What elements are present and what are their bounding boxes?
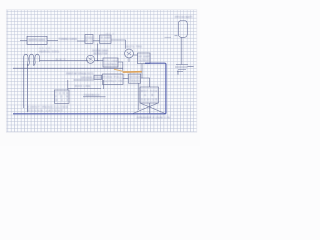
box G2 (103, 74, 124, 84)
tune box (55, 90, 70, 103)
wire B to C (93, 40, 100, 42)
svg-text:MIX: MIX (86, 40, 94, 43)
transistor T2 circle (125, 49, 134, 58)
svg-text:OUTPUT: OUTPUT (138, 58, 150, 62)
wire label to box B (77, 40, 85, 42)
box G (AF amp) (138, 53, 151, 64)
wire H right and down (141, 78, 150, 87)
speaker fan X (133, 103, 165, 114)
wire G2 to H (123, 78, 128, 80)
svg-text:AERIAL COIL: AERIAL COIL (39, 49, 60, 53)
wire C to transistor T2 (111, 40, 126, 49)
svg-text:BIAS LINE: BIAS LINE (75, 84, 91, 88)
battery pill outline (178, 21, 187, 38)
box B (85, 35, 93, 44)
mid wire 2 (68, 87, 101, 89)
svg-text:PUSH PULL: PUSH PULL (103, 75, 122, 79)
svg-text:SENIOR: SENIOR (141, 98, 157, 102)
mid wire 1 (74, 79, 95, 81)
svg-text:IFT 2: IFT 2 (106, 34, 115, 36)
svg-text:FERRITE AERIAL: FERRITE AERIAL (28, 38, 46, 42)
svg-text:FEEDBACK: FEEDBACK (84, 93, 100, 97)
coil vertical wire 2 (26, 64, 28, 112)
transistor T1 circle (87, 55, 95, 63)
long rail y68 (13, 67, 123, 69)
svg-text:AF AMP: AF AMP (138, 55, 150, 59)
svg-text:455KC: 455KC (100, 40, 110, 43)
svg-text:DRIVER: DRIVER (129, 76, 140, 79)
stray tick (165, 36, 172, 38)
battery tick (175, 35, 178, 37)
svg-text:OUTPUT TR: OUTPUT TR (103, 79, 122, 83)
wire T2 to box G (133, 54, 137, 56)
svg-text:DETECTOR: DETECTOR (93, 52, 107, 55)
mid wire 3 (83, 96, 106, 98)
wire under box G down (141, 64, 143, 78)
volume control component (175, 65, 188, 72)
scribble texts (28, 15, 194, 119)
T2 emitter wire down (128, 58, 130, 62)
mid small box (94, 75, 102, 79)
svg-text:CONTROL: CONTROL (104, 62, 118, 66)
svg-text:TUNING GANG: TUNING GANG (59, 37, 78, 41)
vertical from H bottom (138, 83, 140, 110)
photo background (0, 0, 200, 146)
riser to tune box (67, 80, 69, 90)
wire stub into box A (20, 40, 27, 42)
wire A to label (47, 40, 58, 42)
svg-text:VOLUME: VOLUME (104, 59, 118, 63)
graph paper sheet (6, 10, 197, 132)
svg-text:TRANS: TRANS (129, 79, 141, 82)
coil vertical wire 1 (23, 64, 25, 108)
svg-text:DET: DET (56, 58, 66, 61)
box H (128, 74, 140, 83)
battery down wire (181, 37, 183, 64)
vertical right of mid wires (103, 80, 105, 89)
wire F to down corner (118, 62, 123, 71)
svg-text:DRIVER STAGE: DRIVER STAGE (81, 75, 103, 79)
speaker box ROY (140, 87, 159, 103)
thick blue wire from box G (13, 63, 166, 114)
component stub right (178, 66, 194, 75)
svg-text:FIRST AF STAGE OC71: FIRST AF STAGE OC71 (66, 71, 94, 75)
svg-text:SPEAKER 8 OHM 3 IN: SPEAKER 8 OHM 3 IN (137, 115, 170, 119)
ferrite coil loops (23, 54, 40, 65)
box A (antenna coupling box) (27, 36, 47, 44)
svg-text:PP3 9V BATT: PP3 9V BATT (175, 15, 193, 19)
svg-text:ROY KOH: ROY KOH (141, 89, 157, 93)
orange highlighted wire (114, 69, 142, 72)
coil to T1 wire (40, 60, 88, 62)
svg-text:OC71 TR2: OC71 TR2 (126, 44, 142, 48)
box C (100, 35, 111, 43)
junction cross (95, 43, 104, 61)
box F (103, 58, 118, 67)
